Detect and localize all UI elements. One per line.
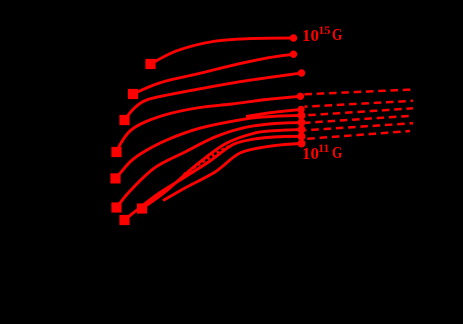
circle marker C4 bbox=[297, 93, 304, 100]
curve c8 dotted part bbox=[184, 146, 230, 175]
circle marker C6 bbox=[298, 112, 306, 120]
circle marker C1 bbox=[290, 34, 297, 41]
circle marker C3 bbox=[298, 69, 305, 76]
square marker S8 bbox=[119, 215, 129, 225]
square marker S5 bbox=[110, 173, 120, 183]
curve c6 bbox=[117, 123, 302, 208]
dashed extension D4 bbox=[306, 116, 414, 123]
curve c9 bbox=[125, 136, 302, 220]
curve c2 bbox=[133, 54, 294, 94]
curve c10 bbox=[163, 144, 302, 201]
dashed extension D6 bbox=[306, 131, 410, 139]
circle marker C7 bbox=[298, 119, 306, 127]
label 10^15 G bbox=[302, 26, 319, 46]
curve c5 bbox=[116, 116, 302, 179]
circle marker C5 bbox=[297, 106, 304, 113]
square marker S1 bbox=[145, 59, 155, 69]
curve c7 bbox=[142, 130, 302, 209]
curve c5f feeder to C5 bbox=[246, 110, 301, 117]
curve c3 bbox=[125, 73, 302, 120]
square marker S2 bbox=[128, 89, 138, 99]
square marker S6 bbox=[111, 202, 121, 212]
curve c1 (B=1e15 G) bbox=[151, 38, 294, 64]
square marker S3 bbox=[119, 115, 129, 125]
circle marker C9 bbox=[298, 133, 306, 141]
curve c4 bbox=[117, 96, 301, 152]
circle marker C8 bbox=[298, 126, 306, 134]
circle marker C10 bbox=[298, 140, 306, 148]
dashed extension D1 bbox=[305, 90, 414, 95]
dashed extension D2 bbox=[305, 101, 414, 107]
dashed extension D3 bbox=[305, 108, 413, 115]
circle marker C2 bbox=[290, 51, 297, 58]
square marker S7 bbox=[137, 203, 147, 213]
square marker S4 bbox=[111, 147, 121, 157]
label 10^11 G bbox=[302, 144, 319, 164]
dashed extension D5 bbox=[306, 123, 414, 130]
